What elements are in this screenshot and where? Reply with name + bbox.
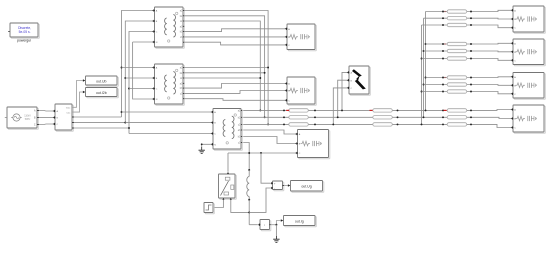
svg-text:powergui: powergui [17, 39, 31, 43]
node right riser phase B [423, 18, 425, 118]
svg-text:Vabc: Vabc [66, 108, 71, 110]
wire fault A to bus [341, 72, 347, 111]
breaker block [219, 172, 237, 200]
wire VI outputs to feeder verticals [74, 117, 129, 128]
three-phase RLC load 3 [295, 130, 330, 159]
wire breaker top [227, 153, 229, 172]
three-phase RL load group4 [511, 105, 546, 133]
line segment ovals feeder group3 [442, 76, 472, 93]
wire VM plus tap [261, 153, 270, 183]
svg-text:out.Ig: out.Ig [295, 219, 304, 223]
node right riser phase A [425, 12, 427, 112]
wire T3 a3 to load3 A [243, 130, 295, 134]
wire T2 b3 to load2 B [184, 91, 285, 94]
transformer T1 (three-phase two-winding) [152, 7, 184, 48]
red current-measure marks on feeder rows A [444, 12, 446, 78]
three-phase V-I measurement block [53, 104, 74, 131]
transformer T3 (grounding zigzag) [211, 109, 243, 151]
node bus phase A row [243, 109, 511, 112]
svg-text:Iabc: Iabc [67, 112, 71, 114]
wire feeder group3 rows [422, 77, 511, 94]
line segment ovals set 3 (bus) [447, 109, 467, 126]
wire CM to out.Ig and ground [271, 219, 284, 236]
wire Vabc signal to out.Ub [72, 79, 85, 107]
junction dots on bus [283, 109, 472, 125]
out.Ig block [284, 216, 317, 227]
out.I2b To-Workspace block [86, 88, 119, 98]
wire breaker bottom to coil node [231, 200, 249, 213]
node bus phase B row [243, 117, 511, 118]
wire T1 b2 to bus drop [184, 16, 265, 118]
wire feeder group1 rows [422, 10, 511, 27]
inductor (arc suppression coil) [247, 169, 250, 225]
svg-text:5e-05 s.: 5e-05 s. [19, 30, 31, 34]
svg-text:50Hz: 50Hz [25, 118, 31, 121]
ground (T3 neutral) [199, 147, 205, 153]
wire step to breaker control [214, 200, 223, 208]
powergui block [8, 23, 39, 43]
step source block [204, 203, 214, 214]
svg-text:out.Ub: out.Ub [96, 79, 106, 83]
wire T2 c3 to load2 C [184, 99, 285, 101]
voltage measurement block [271, 181, 284, 191]
wire VM minus to neutral bottom [249, 188, 270, 212]
node neutral line [228, 152, 295, 154]
red current-measure marks on bus row A [286, 109, 446, 111]
wire Iabc signal to out.I2b [72, 91, 85, 112]
wire T2 a3 to load2 A [184, 84, 285, 89]
line segment ovals set 2 (bus) [373, 109, 393, 126]
transformer T2 (three-phase two-winding) [152, 64, 184, 105]
wire taps to T3 inputs [122, 112, 211, 134]
three-phase RL load group2 [511, 39, 546, 66]
current measurement block [258, 220, 271, 231]
three-phase RL load group1 [511, 6, 546, 33]
three-phase programmable voltage source [5, 107, 39, 129]
wire source A/B/C to measurement [39, 111, 53, 125]
node phase-b feeder vertical [124, 21, 152, 124]
node right riser phase C [421, 25, 423, 125]
wire feeder group2 rows [422, 43, 511, 60]
svg-text:out.I2b: out.I2b [96, 91, 107, 95]
wire taps to T2 inputs [122, 68, 153, 89]
wire T1 b3 to load1 B [184, 36, 285, 38]
wire coil to current measurement [249, 224, 258, 226]
wire fault C to bus [332, 88, 346, 125]
ground (measurement) [273, 236, 279, 242]
wire fault B to bus [337, 80, 347, 118]
node bus phase C row [243, 124, 511, 127]
three-phase RLC load 1 [285, 24, 317, 51]
out.Ug block [291, 181, 324, 193]
wire T1 c3 to load1 C [184, 42, 285, 45]
three-phase RLC load 2 [285, 77, 317, 105]
out.Ub To-Workspace block [86, 76, 119, 86]
line segment ovals set 1 (bus) [289, 109, 309, 126]
wire VM to out.Ug [284, 184, 290, 187]
line segment ovals feeder group1 [442, 10, 472, 27]
wire neutral vertical T1N-T2N [133, 42, 153, 99]
wire T2 a2 join [184, 67, 269, 69]
node phase-c feeder vertical [128, 32, 152, 134]
wire T2 c2 join [184, 77, 261, 79]
svg-text:out.Ug: out.Ug [301, 185, 311, 189]
wire T2 b2 join [184, 72, 265, 74]
wire T1 a2 to bus drop [184, 11, 269, 126]
node phase-a feeder vertical [121, 11, 153, 118]
wire T1 a3 to load1 A [184, 29, 285, 32]
wire T3 b3 to load3 B [243, 137, 295, 144]
three-phase fault block [347, 66, 371, 95]
three-phase RL load group3 [511, 73, 546, 100]
wire T1 c2 to bus drop [184, 21, 261, 111]
wire T3 c3 down to coil [243, 143, 249, 171]
line segment ovals feeder group2 [442, 42, 472, 60]
wire T3 neutral to ground [201, 143, 211, 147]
